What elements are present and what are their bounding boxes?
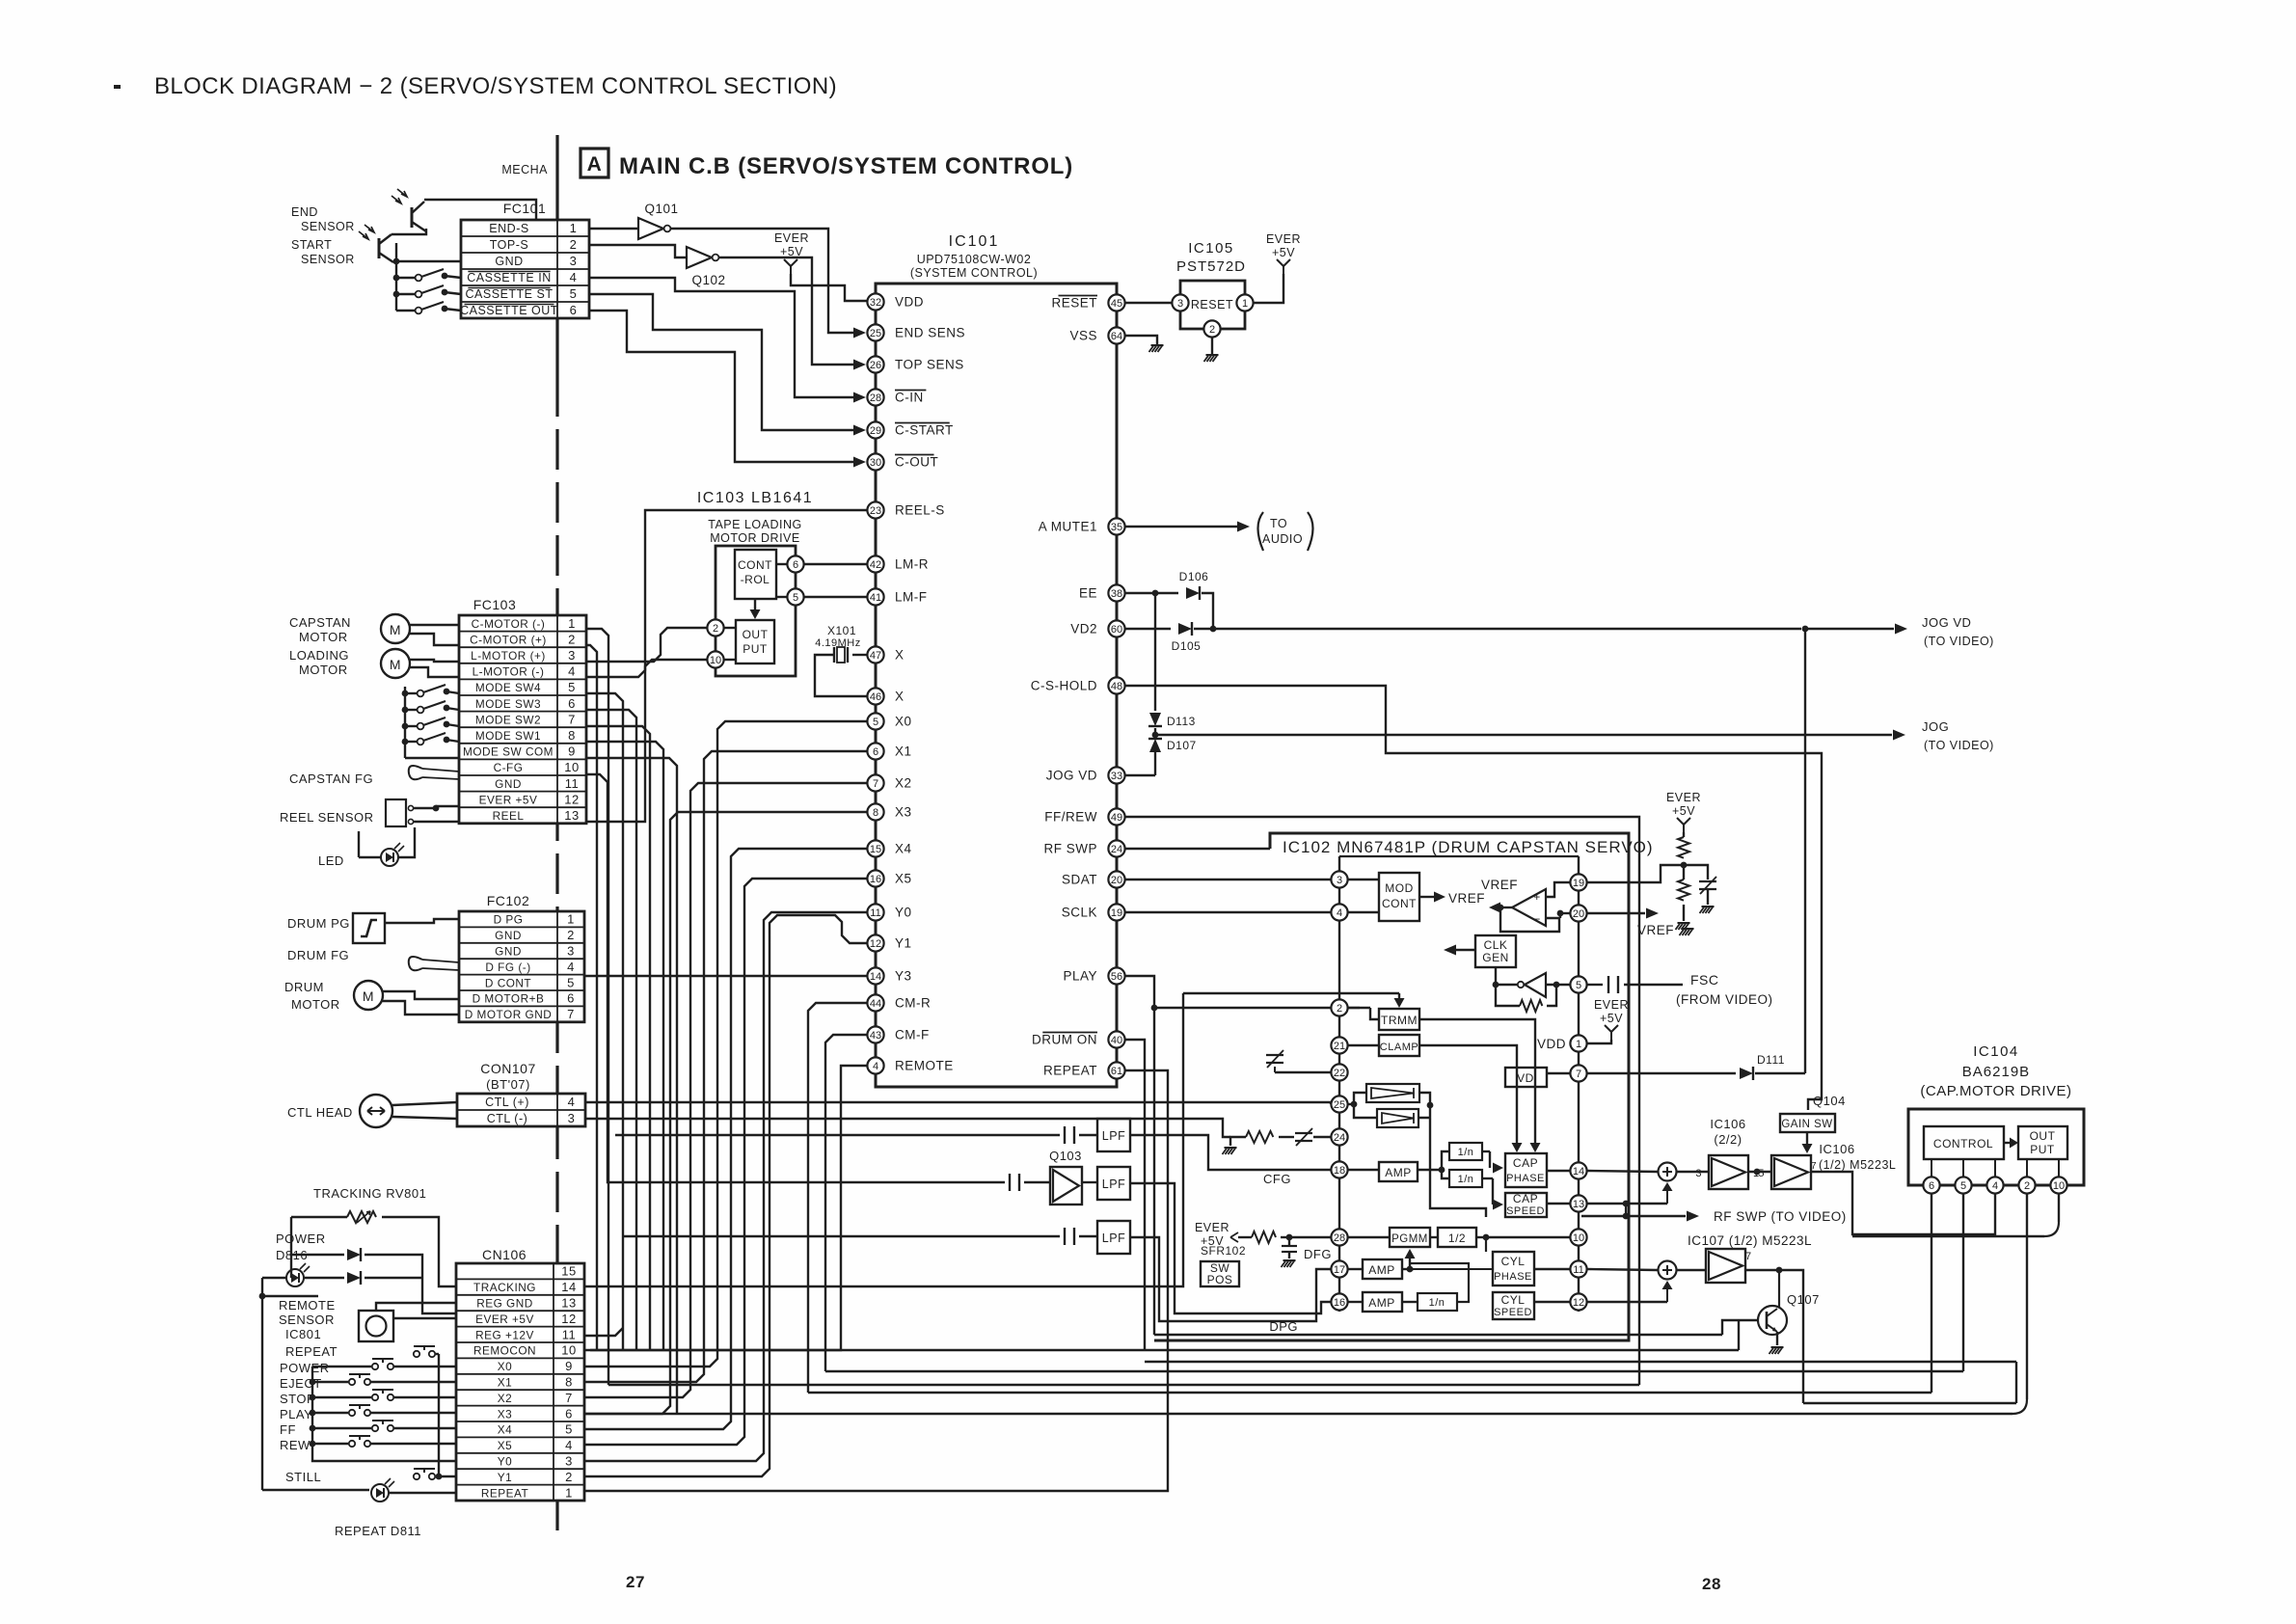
svg-text:LOADING: LOADING [289,648,349,663]
svg-text:GND: GND [495,255,523,268]
wire IC103 pin10 to output [724,659,736,661]
wire pin21 CLAMP [1348,1044,1379,1046]
svg-text:−: − [1533,912,1541,926]
pin24 network [1313,1136,1331,1138]
svg-text:5: 5 [570,286,578,301]
svg-text:Y0: Y0 [895,906,912,920]
svg-text:STILL: STILL [285,1470,321,1484]
svg-text:11: 11 [562,1327,577,1341]
wire pin11 to summing cyl [1587,1269,1658,1270]
IC102 pin 24 [1331,1128,1347,1145]
svg-text:X101: X101 [827,624,856,637]
IC102 pin 12 [1570,1293,1586,1310]
button still [414,1474,419,1479]
wire pin1 to EVER+5V [1587,1040,1611,1043]
svg-text:SENSOR: SENSOR [279,1313,335,1327]
svg-text:IC105: IC105 [1188,240,1234,257]
IC101 pin 11 Y0 [867,904,883,920]
svg-text:CAPSTAN FG: CAPSTAN FG [289,771,373,786]
svg-text:IC106: IC106 [1710,1117,1745,1131]
svg-text:JOG: JOG [1922,719,1949,734]
svg-text:35: 35 [1111,522,1122,533]
wire pin28 PGMM [1348,1236,1390,1238]
wire CASSETTE OUT to C-OUT pin30 [589,311,854,462]
svg-text:TOP SENS: TOP SENS [895,358,964,372]
svg-text:VD2: VD2 [1070,622,1097,636]
svg-text:DFG: DFG [1304,1247,1332,1261]
wire Y3 net [585,975,867,977]
svg-text:VSS: VSS [1069,329,1097,343]
wire X2 net [584,783,867,1397]
diode D113 [1154,593,1156,711]
svg-text:(TO VIDEO): (TO VIDEO) [1924,739,1994,752]
mode switch common rail [404,687,406,758]
wire 1/2 to pin10 [1476,1236,1486,1238]
svg-text:9: 9 [568,744,576,759]
svg-text:3: 3 [570,254,578,268]
wire TOP-S to Q102 [589,245,687,257]
IC101 pin 29 C-START [867,421,883,438]
wire LPF2 output [1130,1183,1331,1313]
wire IC107 output leg [1803,1402,2016,1404]
svg-text:(BT'07): (BT'07) [486,1077,530,1092]
header A MAIN C.B (SERVO/SYSTEM CONTROL) [581,149,608,177]
arrow into TRMM [1183,992,1399,994]
svg-text:FSC: FSC [1690,972,1719,988]
wire button right rail [438,1354,440,1476]
mode switch SW3 [405,709,417,711]
svg-text:D107: D107 [1167,739,1197,752]
svg-text:FC101: FC101 [503,201,547,216]
wire LPF1 output to pin18 [1130,1135,1331,1170]
svg-text:C-IN: C-IN [895,391,924,405]
svg-text:12: 12 [1573,1297,1584,1309]
svg-text:CASSETTE OUT: CASSETTE OUT [460,304,558,317]
svg-text:15: 15 [870,844,881,855]
wire Q102 to TOP SENS pin26 [718,257,854,365]
svg-text:EVER +5V: EVER +5V [479,793,538,806]
IC102 pin 11 [1570,1260,1586,1277]
wire C-MOTOR- bus [586,629,608,1385]
svg-text:MODE SW2: MODE SW2 [475,713,541,726]
IC104 pin 5 [1955,1177,1971,1193]
svg-text:D106: D106 [1179,570,1209,583]
svg-text:23: 23 [870,505,881,517]
svg-text:3: 3 [568,648,576,663]
svg-text:D111: D111 [1757,1053,1785,1067]
svg-text:7: 7 [567,1007,575,1021]
svg-text:PLAY: PLAY [1063,969,1097,984]
svg-text:(TO VIDEO): (TO VIDEO) [1924,635,1994,648]
svg-text:X2: X2 [498,1392,512,1405]
svg-text:10: 10 [564,760,579,774]
IC101 pin 35 A MUTE1 [1108,518,1124,534]
svg-text:SFR102: SFR102 [1201,1244,1246,1258]
svg-text:CAP: CAP [1513,1156,1538,1170]
svg-text:5: 5 [873,717,878,728]
svg-text:REEL SENSOR: REEL SENSOR [280,810,374,825]
svg-text:1/2: 1/2 [1448,1232,1466,1245]
svg-text:64: 64 [1111,331,1122,342]
wire mode SW COM vertical [586,758,677,1414]
svg-text:TRMM: TRMM [1381,1014,1418,1027]
svg-text:6: 6 [567,991,575,1006]
svg-text:POWER: POWER [276,1232,326,1246]
svg-text:GEN: GEN [1482,951,1509,964]
svg-text:EVER: EVER [774,231,809,245]
svg-text:38: 38 [1111,588,1122,600]
svg-text:EVER: EVER [1666,791,1701,804]
svg-text:C-S-HOLD: C-S-HOLD [1031,679,1097,693]
svg-text:1: 1 [568,616,576,631]
switch cassette out [416,308,422,314]
svg-text:1: 1 [570,221,578,235]
svg-text:D FG (-): D FG (-) [485,961,530,974]
IC101 pin 12 Y1 [867,934,883,951]
wire X0 net [584,721,867,1367]
wire JOG VD pin33 [1125,774,1155,776]
svg-text:18: 18 [1334,1165,1345,1177]
svg-text:X3: X3 [895,805,912,820]
svg-text:7: 7 [568,712,576,726]
svg-text:5: 5 [565,1422,573,1437]
svg-text:RESET: RESET [1191,298,1233,311]
CTL head [360,1095,392,1127]
wire SCLK to IC102 pin4 [1125,911,1331,913]
svg-text:X: X [895,648,905,663]
svg-text:1/n: 1/n [1458,1147,1474,1158]
limiter box A [1366,1084,1419,1102]
IC102 pin 20 [1570,905,1586,921]
svg-text:MODE SW4: MODE SW4 [475,681,541,694]
VD box [1505,1068,1547,1087]
svg-text:REMOCON: REMOCON [473,1344,536,1358]
IC103 pin 10 [707,651,723,667]
svg-text:6: 6 [793,559,798,571]
svg-text:10: 10 [561,1343,576,1358]
svg-text:61: 61 [1111,1066,1122,1077]
wire pin2 stub left [1154,1007,1331,1009]
diode D106 [1125,592,1178,594]
wire CM-R net [808,1003,867,1393]
wire IC107 out [1745,1264,1779,1266]
svg-text:6: 6 [568,696,576,711]
svg-text:2: 2 [1337,1003,1342,1015]
svg-text:PST572D: PST572D [1176,258,1246,275]
svg-text:L-MOTOR (+): L-MOTOR (+) [471,649,546,663]
LPF box 3 [1064,1228,1066,1245]
svg-text:42: 42 [870,559,881,571]
drum motor [354,981,383,1010]
svg-text:JOG VD: JOG VD [1922,615,1971,630]
CAP SPEED box [1505,1193,1547,1217]
svg-text:SENSOR: SENSOR [301,220,355,233]
wire 1/n C feedback [1410,1263,1469,1302]
IC101 pin 30 C-OUT [867,453,883,470]
IC101 pin 60 VD2 [1108,620,1124,636]
svg-text:1: 1 [565,1485,573,1500]
diode D107 [1154,728,1156,735]
IC101 pin 38 EE [1108,584,1124,601]
wire CASSETTE ST to C-START pin29 [589,294,854,430]
capacitor at pin28 [1288,1237,1290,1246]
svg-text:10: 10 [2053,1180,2065,1192]
svg-text:A MUTE1: A MUTE1 [1039,520,1097,534]
wire TRACKING net [584,993,1183,1286]
svg-text:5: 5 [1576,980,1581,991]
svg-text:END SENS: END SENS [895,326,965,340]
AMP box CFG [1379,1162,1418,1181]
svg-text:AMP: AMP [1385,1166,1412,1179]
IC101 pin 8 X3 [867,803,883,820]
svg-text:EJECT: EJECT [280,1376,322,1391]
IC102 pin 1 [1570,1035,1586,1051]
IC103 pin 2 [707,619,723,636]
svg-text:46: 46 [870,691,881,703]
wire CTL+ to pin25 [585,1102,1331,1104]
svg-text:IC103 LB1641: IC103 LB1641 [697,490,813,506]
svg-text:VDD: VDD [1537,1037,1566,1051]
svg-text:MOD: MOD [1385,881,1414,895]
svg-text:SCLK: SCLK [1062,906,1097,920]
svg-text:LM-R: LM-R [895,557,929,572]
svg-text:(CAP.MOTOR DRIVE): (CAP.MOTOR DRIVE) [1920,1083,2071,1099]
wire bus 1400 [590,1349,1739,1351]
svg-text:4: 4 [568,1095,576,1109]
wire JOG VD long [1213,628,1801,630]
reel sensor [386,799,406,826]
svg-text:CYL: CYL [1501,1293,1526,1307]
svg-text:A: A [587,153,603,176]
svg-text:REG +12V: REG +12V [475,1328,534,1341]
svg-text:TAPE LOADING: TAPE LOADING [708,518,801,531]
svg-text:CTL HEAD: CTL HEAD [287,1105,353,1120]
svg-text:44: 44 [870,998,881,1010]
limiter box B [1377,1109,1418,1127]
svg-text:FF: FF [280,1422,296,1437]
wire IC106 join [1748,1171,1771,1173]
diode D105 [1125,628,1171,630]
IC101 pin 49 FF/REW [1108,808,1124,825]
svg-text:IC102 MN67481P (DRUM CAPSTAN S: IC102 MN67481P (DRUM CAPSTAN SERVO) [1283,838,1654,856]
button repeat [414,1351,419,1357]
IC101 pin 6 X1 [867,743,883,759]
IC104 CONTROL box [1924,1126,2004,1159]
svg-text:SDAT: SDAT [1062,873,1097,887]
IC101 pin 33 JOG VD [1108,767,1124,783]
svg-text:Q103: Q103 [1049,1149,1082,1163]
svg-text:2: 2 [565,1470,573,1484]
svg-text:RF SWP (TO VIDEO): RF SWP (TO VIDEO) [1714,1209,1847,1224]
feedback resistor FSC [1496,985,1520,1006]
svg-text:15: 15 [561,1264,576,1279]
svg-text:12: 12 [561,1312,576,1326]
svg-text:OUT: OUT [2030,1129,2056,1143]
svg-text:BLOCK DIAGRAM − 2 (SERVO/SYS: BLOCK DIAGRAM − 2 (SERVO/SYSTEM CONTROL … [154,73,837,99]
op-amp IC106 1/2 [1771,1155,1811,1189]
SW POS box [1201,1261,1239,1286]
mode switch SW1 [405,741,417,743]
IC103 control to output arrow [754,599,756,611]
svg-text:Q102: Q102 [691,273,725,287]
wire Y0 net [584,912,867,1461]
divider 1/n box A [1449,1143,1482,1160]
wire limiters down [1430,1119,1486,1217]
wire CLK GEN output arrow [1456,949,1475,951]
svg-text:OUT: OUT [743,628,769,641]
wire pin20 to opamp minus [1560,912,1570,914]
IC102 pin 13 [1570,1195,1586,1211]
svg-text:SPEED: SPEED [1506,1205,1545,1217]
IC101 pin 32 VDD [867,293,883,310]
svg-text:5: 5 [568,680,576,694]
svg-text:2: 2 [568,632,576,646]
wire CASSETTE IN to C-IN pin28 [589,278,854,397]
svg-text:MODE SW1: MODE SW1 [475,729,541,743]
svg-text:(SYSTEM CONTROL): (SYSTEM CONTROL) [910,266,1038,280]
svg-text:43: 43 [870,1030,881,1042]
op-amp VREF buffer [1512,889,1546,926]
summing bottom arrow [1587,1203,1667,1204]
svg-text:Y1: Y1 [895,936,912,951]
svg-text:Y0: Y0 [498,1455,512,1469]
svg-text:1/n: 1/n [1429,1297,1445,1309]
IC104 pin 2 [2018,1177,2035,1193]
IC101 pin 15 X4 [867,840,883,856]
svg-text:REG GND: REG GND [476,1297,533,1311]
svg-text:3: 3 [1695,1168,1702,1179]
capstan motor [381,614,410,643]
svg-text:X1: X1 [498,1376,512,1390]
svg-text:+5V: +5V [1600,1012,1623,1025]
button ff [372,1425,378,1431]
svg-text:LPF: LPF [1102,1177,1125,1191]
wire END-S to Q101 [589,228,638,230]
arrow GAIN SW to IC106 [1806,1132,1808,1144]
svg-text:AUDIO: AUDIO [1262,532,1303,546]
svg-text:7: 7 [1576,1069,1581,1080]
button stop [372,1394,378,1400]
svg-text:1/n: 1/n [1458,1174,1474,1185]
wire C-S-HOLD to GAIN SW [1125,686,1822,1110]
mode switch SW4 [405,692,417,694]
svg-text:DRUM ON: DRUM ON [1032,1033,1097,1047]
svg-text:CONTROL: CONTROL [1933,1137,1993,1150]
wire VREF feedback [1500,907,1559,932]
svg-text:CON107: CON107 [480,1061,535,1076]
svg-text:X5: X5 [895,872,912,886]
svg-text:CM-R: CM-R [895,996,931,1011]
ground at pin22 [1275,1071,1331,1073]
wire IC105 pin1 to EVER+5V [1254,274,1283,303]
wire pin2 TRMM [1348,1007,1370,1009]
svg-text:START: START [291,238,332,252]
wire X5 net [584,879,867,1445]
wire CYL PHASE pin11 [1534,1268,1570,1270]
wire pin19 to opamp plus [1546,882,1570,897]
arrow control to output [2004,1142,2011,1144]
svg-text:3: 3 [567,944,575,959]
svg-text:16: 16 [870,874,881,885]
svg-text:IC107 (1/2) M5223L: IC107 (1/2) M5223L [1688,1233,1812,1248]
svg-text:MOTOR: MOTOR [299,663,348,677]
svg-text:4: 4 [1337,907,1342,919]
transistor Q107 [1758,1306,1787,1335]
IC102 pin 18 [1331,1161,1347,1177]
wire REG+12V stub [584,1328,623,1336]
svg-text:19: 19 [1111,907,1122,919]
IC102 pin 10 [1570,1229,1586,1245]
IC101 pin 16 X5 [867,870,883,886]
svg-text:D113: D113 [1167,715,1196,728]
IC103 outer box [716,546,796,676]
svg-text:X0: X0 [895,715,912,729]
svg-text:8: 8 [568,728,576,743]
svg-text:MAIN C.B (SERVO/SYSTEM CONTR: MAIN C.B (SERVO/SYSTEM CONTROL) [619,153,1073,179]
svg-text:25: 25 [870,328,881,339]
svg-text:3: 3 [1177,298,1183,310]
svg-text:2: 2 [713,623,718,635]
svg-text:6: 6 [1929,1180,1934,1192]
svg-text:20: 20 [1111,875,1122,886]
buffer Q102 [687,247,712,268]
IC101 pin 41 LM-F [867,588,883,605]
svg-text:C-START: C-START [895,423,954,438]
IC101 pin 28 C-IN [867,389,883,405]
svg-text:11: 11 [565,776,580,791]
svg-text:2: 2 [570,237,578,252]
svg-text:CASSETTE IN: CASSETTE IN [467,271,551,284]
wire Q107 emitter ground [1776,1332,1778,1345]
svg-text:16: 16 [1334,1297,1345,1309]
svg-text:1: 1 [1576,1039,1581,1050]
svg-text:+: + [1533,890,1541,904]
svg-text:REPEAT: REPEAT [285,1344,338,1359]
wire X1 net [584,751,867,1382]
svg-text:28: 28 [870,392,881,404]
svg-text:X0: X0 [498,1360,512,1373]
svg-text:X3: X3 [498,1407,512,1421]
wire X101 to pin46 [815,655,867,696]
IC101 pin 40 DRUM ON [1108,1031,1124,1047]
IC102 pin 7 [1570,1065,1586,1081]
svg-text:REEL-S: REEL-S [895,503,945,518]
drum FG head [409,957,422,970]
mode switch SW2 [405,725,417,727]
IC101 pin 43 CM-F [867,1026,883,1042]
svg-text:7: 7 [873,778,878,790]
IC101 pin 48 C-S-HOLD [1108,677,1124,693]
IC101 pin 4 REMOTE [867,1057,883,1073]
wire Y1 net [584,915,867,1476]
IC102 pin 14 [1570,1162,1586,1178]
svg-text:24: 24 [1334,1132,1345,1144]
wire VREF opamp output [1500,907,1512,908]
CYL PHASE box [1493,1252,1534,1286]
svg-text:VREF: VREF [1637,923,1674,937]
svg-text:28: 28 [1334,1232,1345,1244]
svg-text:6: 6 [873,746,878,758]
CLK GEN box [1475,935,1516,967]
svg-text:LPF: LPF [1102,1129,1125,1143]
svg-text:REPEAT: REPEAT [481,1486,528,1500]
wire LPF3 output [1130,1237,1331,1321]
svg-text:M: M [390,622,401,637]
IC104 OUT PUT box [2018,1126,2067,1159]
wire bus 1444 to IC104 pin6 [808,1392,1931,1394]
wire JOG long [1155,734,1892,736]
wire REEL-S pin23 to FC103 REEL [586,510,867,822]
